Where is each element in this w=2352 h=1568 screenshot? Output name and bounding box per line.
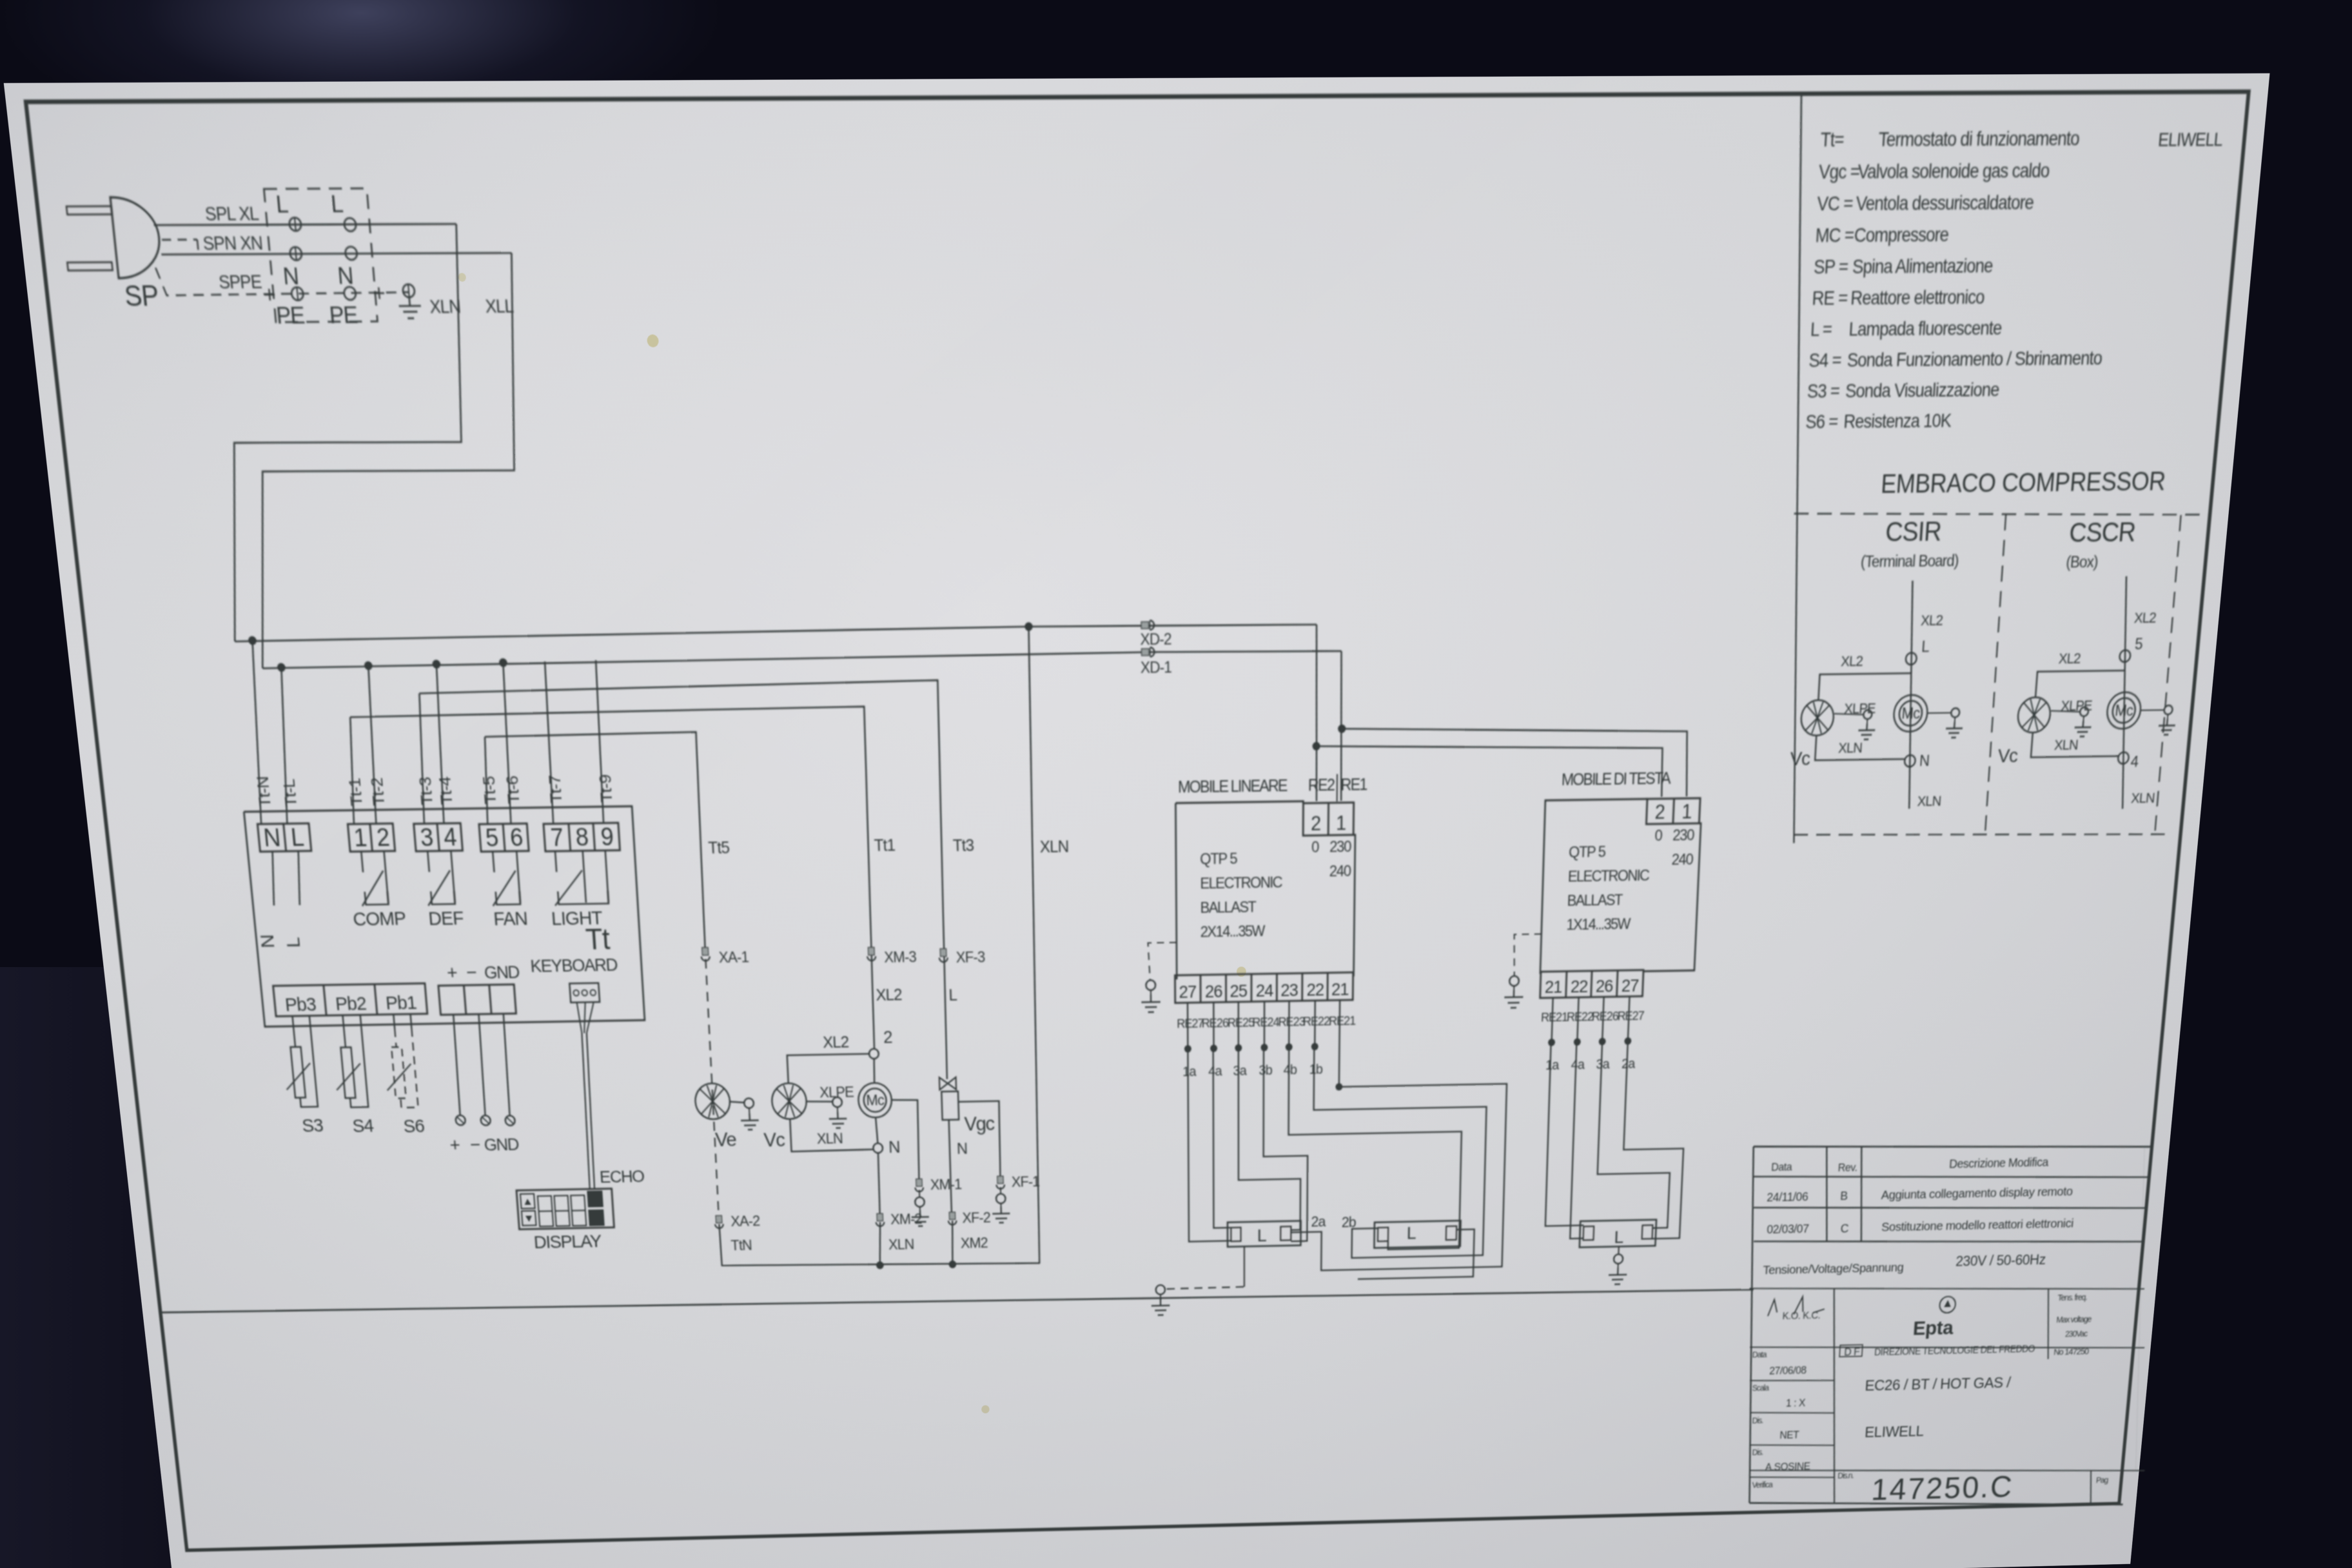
labels 1a 4a 3a 3b 4b 1b — [1182, 1062, 1322, 1079]
bus L (to XD-1) — [262, 650, 1341, 669]
svg-text:S4: S4 — [351, 1115, 374, 1136]
svg-text:XL2: XL2 — [1841, 653, 1863, 669]
svg-text:XLN: XLN — [888, 1236, 914, 1253]
QTP2 terminal row 21 22 26 27 — [1540, 970, 1643, 998]
svg-text:3b: 3b — [1259, 1063, 1272, 1079]
svg-text:RE26: RE26 — [1202, 1016, 1229, 1030]
wire Tt-9 riser — [593, 660, 606, 823]
label XD-2 — [1140, 630, 1171, 649]
svg-text:BALLAST: BALLAST — [1567, 891, 1623, 909]
svg-text:22: 22 — [1570, 977, 1587, 997]
QTP1 PE dashed bracket — [1148, 943, 1177, 980]
connector XD-1 — [1142, 649, 1150, 656]
wire bus L to QTP1 terminal 1 — [1340, 651, 1342, 801]
svg-text:25: 25 — [1230, 981, 1247, 1001]
svg-text:0: 0 — [1654, 827, 1663, 844]
svg-text:21: 21 — [1544, 977, 1562, 997]
wire XLL jog — [224, 253, 540, 668]
svg-text:XM-1: XM-1 — [930, 1176, 961, 1193]
svg-text:Ve: Ve — [714, 1128, 736, 1151]
wire SPPE (PE, dashed) — [155, 266, 409, 296]
svg-text:4a: 4a — [1571, 1057, 1585, 1072]
sensor S3 wires — [293, 1016, 296, 1047]
connector XD-2 — [1141, 622, 1149, 629]
compressor circuit CSCR — [2107, 576, 2143, 808]
terminal box (dashed) — [264, 188, 377, 322]
wire Tt-6 riser — [500, 663, 515, 824]
svg-text:Spina Alimentazione: Spina Alimentazione — [1852, 256, 1994, 278]
labels RE21 RE22 RE26 RE27 (2) — [1541, 1008, 1645, 1024]
wire RE23 to lamp L2 left bottom — [1288, 1044, 1464, 1251]
svg-text:Sonda Visualizzazione: Sonda Visualizzazione — [1845, 380, 2000, 402]
ballast QTP1 box — [1175, 801, 1303, 805]
svg-text:Vc: Vc — [763, 1128, 785, 1151]
svg-text:Dis.: Dis. — [1752, 1416, 1763, 1426]
svg-text:2: 2 — [1311, 813, 1320, 835]
wire RE24 to lamp L1 right bottom — [1263, 1046, 1308, 1242]
QTP1 PE terminal ground — [1146, 980, 1155, 990]
svg-text:XL2: XL2 — [2058, 651, 2081, 667]
svg-text:Scala: Scala — [1752, 1384, 1769, 1393]
connector XF-3 — [940, 948, 946, 956]
svg-text:2a: 2a — [1622, 1056, 1636, 1071]
Ve PE terminal — [730, 1101, 745, 1102]
connector XF-1 — [997, 1176, 1003, 1183]
svg-text:L: L — [329, 190, 344, 218]
wire SPN XN (N) — [161, 252, 511, 255]
svg-text:2: 2 — [883, 1027, 892, 1047]
svg-text:XLN: XLN — [429, 297, 461, 318]
svg-text:L: L — [1614, 1228, 1623, 1248]
svg-text:XF-3: XF-3 — [955, 948, 985, 966]
QTP1 output wires RE27..RE21 with junction dots — [1184, 1000, 1340, 1052]
embraco dashed right edge — [2153, 515, 2184, 835]
revision table row line 3 — [1753, 1233, 2144, 1249]
svg-text:Epta: Epta — [1912, 1317, 1955, 1340]
svg-text:XM-2: XM-2 — [890, 1211, 922, 1228]
svg-text:1X14...35W: 1X14...35W — [1566, 915, 1631, 933]
wire XF-2 to bottom bus — [951, 1220, 954, 1264]
text DIF direzione — [1839, 1345, 1863, 1357]
svg-text:DEF: DEF — [427, 908, 464, 930]
svg-text:RE21: RE21 — [1329, 1014, 1356, 1028]
node N circle — [873, 1143, 883, 1153]
svg-text:−: − — [465, 962, 477, 983]
PE cross marks — [264, 294, 275, 296]
label XLN — [429, 297, 461, 318]
junction dots bottom bus — [876, 1261, 884, 1269]
svg-text:Pb3: Pb3 — [284, 994, 317, 1015]
svg-text:DISPLAY: DISPLAY — [533, 1231, 602, 1253]
connector XM-3 — [868, 947, 875, 955]
svg-text:23: 23 — [1280, 980, 1298, 1000]
wire QTP2-27 to lamp L3 right bottom — [1620, 1040, 1689, 1239]
svg-text:Tt-1: Tt-1 — [346, 778, 366, 807]
fluorescent lamp L3 — [1580, 1220, 1656, 1248]
svg-text:L: L — [1921, 638, 1930, 656]
svg-text:XA-1: XA-1 — [718, 948, 749, 966]
svg-text:1: 1 — [1336, 812, 1346, 834]
svg-text:L: L — [948, 986, 957, 1004]
connector XM-1 — [916, 1179, 922, 1186]
svg-text:XF-2: XF-2 — [962, 1210, 990, 1226]
svg-text:SPN XN: SPN XN — [202, 233, 263, 254]
lamp L2 right stub — [1358, 1230, 1475, 1279]
svg-text:XLN: XLN — [1917, 794, 1941, 810]
svg-text:RE25: RE25 — [1228, 1015, 1255, 1030]
svg-text:RE22: RE22 — [1303, 1014, 1330, 1028]
svg-text:02/03/07: 02/03/07 — [1767, 1222, 1809, 1236]
svg-text:Ventola dessuriscaldatore: Ventola dessuriscaldatore — [1856, 192, 2035, 215]
svg-text:Mc: Mc — [866, 1092, 885, 1108]
svg-text:4a: 4a — [1208, 1064, 1222, 1079]
wire to QTP2 terminal 2 — [1316, 741, 1664, 801]
svg-text:QTP 5: QTP 5 — [1569, 843, 1606, 861]
svg-text:9: 9 — [600, 823, 614, 850]
QTP2 terminals 2 1 — [1646, 798, 1700, 824]
svg-text:EC26 / BT / HOT GAS /: EC26 / BT / HOT GAS / — [1865, 1375, 2012, 1395]
svg-text:Resistenza 10K: Resistenza 10K — [1843, 411, 1952, 432]
connector XF-2 — [949, 1212, 955, 1219]
wire Tt-2 riser — [363, 665, 382, 823]
Epta logo — [1939, 1297, 1956, 1313]
svg-text:SP =: SP = — [1813, 257, 1848, 278]
svg-text:7: 7 — [549, 823, 563, 851]
QTP1 terminals 2 1 — [1303, 803, 1354, 836]
svg-text:1 : X: 1 : X — [1786, 1398, 1806, 1409]
svg-text:Tt-N: Tt-N — [254, 777, 275, 808]
revision table top edge — [1753, 1139, 2153, 1155]
svg-text:QTP 5: QTP 5 — [1200, 850, 1237, 868]
wire RE27 to lamp L1 left bottom — [1188, 1048, 1230, 1242]
svg-text:Vc: Vc — [1790, 748, 1811, 770]
QTP2 PE dashed bracket — [1513, 934, 1542, 976]
connector XA-2 — [716, 1215, 722, 1222]
terminal block 5 6 — [479, 823, 529, 852]
svg-text:RE =: RE = — [1812, 288, 1848, 309]
svg-text:ELIWELL: ELIWELL — [2157, 130, 2224, 151]
svg-text:0: 0 — [1311, 838, 1319, 856]
svg-text:RE21: RE21 — [1541, 1010, 1568, 1024]
label XLL — [485, 296, 514, 317]
terminal block N L — [257, 823, 311, 852]
dashed PE link lamp L1 — [1167, 1287, 1244, 1289]
svg-text:No 147250: No 147250 — [2053, 1346, 2090, 1357]
svg-text:XF-1: XF-1 — [1012, 1173, 1040, 1190]
wire XM-2 to bottom bus — [878, 1222, 881, 1265]
svg-text:ELECTRONIC: ELECTRONIC — [1200, 874, 1282, 892]
sensor S4 (Pb2) — [340, 1047, 355, 1098]
svg-text:(Terminal Board): (Terminal Board) — [1860, 551, 1959, 571]
junction Tt-N on bus — [248, 636, 257, 645]
svg-text:CSIR: CSIR — [1885, 517, 1942, 547]
svg-text:NET: NET — [1779, 1429, 1799, 1441]
junction dots on bus L — [277, 663, 286, 672]
remote display ECHO — [516, 1189, 614, 1230]
svg-text:RE22: RE22 — [1567, 1010, 1594, 1024]
wire XLN vertical — [1026, 627, 1042, 1263]
wire Vc bottom XLN to N — [790, 1117, 873, 1151]
svg-text:N: N — [337, 262, 354, 290]
title main column dividers — [1821, 1288, 1848, 1504]
label SPPE — [218, 272, 263, 293]
svg-text:XL2: XL2 — [2133, 610, 2157, 626]
svg-text:S3: S3 — [301, 1115, 324, 1136]
revision column dividers — [1821, 1146, 1833, 1242]
terminals PE PE — [291, 287, 304, 300]
svg-text:Mc: Mc — [1901, 704, 1921, 722]
svg-text:GND: GND — [484, 962, 520, 983]
controller box Tt — [244, 807, 645, 1027]
svg-text:6: 6 — [509, 823, 524, 851]
terminal wire labels Tt-N .. Tt-9 — [254, 772, 616, 807]
svg-text:L =: L = — [1810, 319, 1832, 340]
wire XLN jog — [195, 224, 487, 642]
svg-text:XLL: XLL — [485, 296, 514, 317]
wire Vgc to XF-2 — [949, 1120, 952, 1216]
svg-text:MOBILE LINEARE: MOBILE LINEARE — [1178, 776, 1288, 796]
svg-text:(Box): (Box) — [2066, 553, 2099, 571]
svg-text:XLN: XLN — [2053, 738, 2078, 754]
svg-text:EMBRACO COMPRESSOR: EMBRACO COMPRESSOR — [1880, 467, 2166, 498]
svg-text:RE2: RE2 — [1308, 776, 1335, 794]
svg-text:Tt1: Tt1 — [874, 836, 895, 855]
svg-text:XLN: XLN — [1040, 838, 1069, 856]
wire Tt-L riser — [273, 667, 296, 823]
label SPL XL — [204, 204, 260, 225]
svg-text:Lampada fluorescente: Lampada fluorescente — [1848, 318, 2003, 340]
svg-text:RE24: RE24 — [1252, 1015, 1279, 1029]
svg-text:Vgc =: Vgc = — [1818, 161, 1860, 183]
svg-text:−: − — [469, 1135, 481, 1155]
junction XLN vertical — [1024, 622, 1033, 631]
wire Tt-5 riser — [481, 737, 491, 824]
junction wire21 turn — [1335, 1083, 1342, 1091]
svg-text:ELIWELL: ELIWELL — [1864, 1423, 1924, 1440]
svg-text:N: N — [1919, 752, 1930, 769]
svg-text:3: 3 — [419, 823, 434, 851]
svg-text:XL2: XL2 — [823, 1034, 849, 1052]
sensor S6 wires (dashed) — [393, 1015, 395, 1029]
legend divider vertical — [1763, 95, 1834, 843]
svg-text:XL2: XL2 — [876, 986, 902, 1004]
svg-text:MC =: MC = — [1815, 225, 1855, 246]
svg-text:MOBILE DI TESTA: MOBILE DI TESTA — [1561, 769, 1671, 789]
fluorescent lamp L1 — [1228, 1221, 1301, 1247]
svg-text:24/11/06: 24/11/06 — [1767, 1190, 1808, 1204]
svg-text:XM-3: XM-3 — [884, 948, 917, 966]
svg-text:A.SOSINE: A.SOSINE — [1765, 1461, 1810, 1473]
wire RE25 to lamp L1 right top — [1239, 1047, 1301, 1231]
svg-text:2X14...35W: 2X14...35W — [1200, 922, 1266, 940]
svg-text:XL2: XL2 — [1920, 612, 1943, 629]
signature scribbles — [1768, 1296, 1825, 1316]
wire XL2 Vc to node 2 — [787, 1054, 870, 1084]
svg-text:3a: 3a — [1233, 1063, 1247, 1079]
relay contact FAN — [493, 852, 494, 872]
svg-text:D F: D F — [1844, 1346, 1860, 1358]
bus Tt-1 to Tt1 — [350, 707, 877, 1058]
svg-text:Sonda Funzionamento / Sbriname: Sonda Funzionamento / Sbrinamento — [1847, 348, 2103, 371]
svg-text:240: 240 — [1671, 850, 1693, 868]
plug SP — [110, 197, 163, 279]
svg-text:230V / 50-60Hz: 230V / 50-60Hz — [1955, 1251, 2046, 1269]
lamp L3 PE stub and ground — [1618, 1246, 1620, 1255]
motor Mc compressor — [857, 1083, 892, 1118]
bus N (to XD-2) — [234, 623, 1317, 642]
svg-text:Pb2: Pb2 — [335, 994, 367, 1015]
svg-text:S6: S6 — [402, 1116, 425, 1137]
svg-text:1a: 1a — [1545, 1058, 1560, 1073]
wire Tt-3 riser — [414, 693, 430, 823]
svg-text:RE27: RE27 — [1177, 1016, 1204, 1030]
wire Mc right to XM-1 — [892, 1099, 921, 1183]
XM-1 pigtail ground — [919, 1190, 921, 1198]
wire N to XM-2 — [877, 1153, 881, 1217]
svg-text:Tt3: Tt3 — [952, 836, 974, 855]
svg-text:Tt5: Tt5 — [708, 839, 730, 857]
wire Tt-1 riser — [345, 717, 360, 824]
svg-text:C: C — [1840, 1222, 1849, 1235]
relay contact COMP — [361, 852, 363, 872]
svg-text:VC =: VC = — [1816, 193, 1853, 215]
svg-text:XLN: XLN — [1838, 740, 1863, 756]
junction to head unit wire 1 — [1338, 725, 1346, 733]
svg-text:LIGHT: LIGHT — [551, 908, 603, 930]
sensor S4 wires — [343, 1016, 346, 1048]
svg-text:XM2: XM2 — [961, 1235, 988, 1251]
svg-text:KEYBOARD: KEYBOARD — [529, 955, 618, 976]
svg-text:Valvola solenoide gas caldo: Valvola solenoide gas caldo — [1857, 161, 2050, 183]
svg-text:230Vac: 230Vac — [2065, 1329, 2088, 1338]
label SP — [123, 280, 160, 313]
svg-text:2: 2 — [375, 823, 390, 851]
wires + - GND pigtails — [452, 1015, 461, 1115]
terminals N N — [289, 247, 302, 260]
wire SPL XL (L) — [154, 223, 456, 226]
svg-text:2: 2 — [1654, 801, 1665, 823]
svg-text:TtN: TtN — [730, 1237, 752, 1254]
svg-text:XA-2: XA-2 — [730, 1213, 760, 1230]
svg-text:CSCR: CSCR — [2068, 518, 2137, 548]
wire Mc bottom to N node — [876, 1117, 877, 1143]
revision table row line 2 — [1753, 1200, 2147, 1216]
svg-text:Rev.: Rev. — [1837, 1162, 1857, 1174]
wire QTP2-26 to lamp L3 right top — [1596, 1040, 1676, 1229]
bus Tt-3 to Tt3 — [419, 680, 950, 1088]
QTP1 terminal row 27..21 — [1175, 972, 1353, 1003]
svg-text:RE26: RE26 — [1591, 1009, 1618, 1023]
connector XM-2 — [877, 1213, 883, 1220]
svg-text:XLN: XLN — [816, 1130, 843, 1147]
svg-text:RE27: RE27 — [1617, 1008, 1644, 1023]
separator rule above bottom margin — [161, 1279, 1754, 1324]
title block bottom edge — [1749, 1494, 2124, 1513]
svg-text:SPPE: SPPE — [218, 272, 263, 293]
svg-text:XLPE: XLPE — [819, 1084, 854, 1101]
svg-text:FAN: FAN — [493, 908, 528, 930]
connector XA-1 — [702, 948, 709, 955]
lamp L1 starter stub to PE — [1244, 1246, 1245, 1287]
PE earth terminal and ground — [402, 284, 415, 297]
svg-text:26: 26 — [1205, 981, 1222, 1001]
svg-text:ELECTRONIC: ELECTRONIC — [1567, 867, 1650, 885]
wire bus N to QTP1 terminal 2 — [1315, 625, 1318, 801]
svg-text:24: 24 — [1256, 981, 1273, 1001]
svg-text:Tt-9: Tt-9 — [596, 775, 616, 803]
svg-text:22: 22 — [1306, 979, 1324, 999]
svg-text:N: N — [957, 1140, 968, 1157]
svg-text:27/06/08: 27/06/08 — [1769, 1365, 1807, 1377]
title block left edge — [1735, 1146, 1769, 1504]
svg-text:PE: PE — [275, 302, 306, 329]
svg-text:240: 240 — [1329, 862, 1351, 879]
lamp Vc — [771, 1083, 807, 1120]
svg-text:N: N — [282, 262, 299, 290]
wire QTP2-22 to lamp L3 left bottom — [1570, 1042, 1590, 1239]
svg-text:Descrizione Modifica: Descrizione Modifica — [1949, 1155, 2050, 1171]
wires N L stubs — [269, 852, 278, 906]
QTP2 output wires with junction dots — [1548, 996, 1633, 1046]
svg-text:Compressore: Compressore — [1854, 224, 1949, 246]
fluorescent lamp L2 — [1374, 1220, 1460, 1248]
terminal block 3 4 — [414, 823, 463, 852]
svg-text:N: N — [262, 824, 281, 852]
compressor circuit CSIR — [1898, 580, 1924, 808]
svg-text:Tt-7: Tt-7 — [546, 776, 565, 804]
svg-text:S3 =: S3 = — [1807, 381, 1840, 402]
QTP2 PE terminal ground — [1509, 976, 1519, 986]
svg-text:4b: 4b — [1284, 1063, 1297, 1078]
svg-text:Tens. freq.: Tens. freq. — [2057, 1293, 2087, 1303]
svg-text:ECHO: ECHO — [599, 1166, 645, 1186]
terminal block 1 2 — [348, 823, 395, 852]
keyboard connector — [569, 983, 600, 1003]
svg-text:Mc: Mc — [2114, 701, 2133, 720]
svg-text:Reattore elettronico: Reattore elettronico — [1850, 287, 1985, 309]
svg-text:L: L — [1257, 1226, 1267, 1246]
svg-text:B: B — [1840, 1189, 1848, 1202]
wire node2 to Mc — [874, 1059, 875, 1083]
revision table row line 1 — [1753, 1169, 2150, 1185]
label XD-1 — [1141, 658, 1171, 677]
svg-text:230: 230 — [1329, 838, 1351, 855]
svg-text:N: N — [257, 934, 279, 948]
svg-text:SP: SP — [123, 280, 160, 313]
svg-text:S4 =: S4 = — [1808, 350, 1842, 371]
wire QTP2-21 to lamp L3 left top — [1545, 1042, 1590, 1226]
svg-text:26: 26 — [1595, 976, 1613, 996]
svg-text:XLN: XLN — [2130, 790, 2155, 807]
svg-text:Tt-3: Tt-3 — [416, 777, 436, 805]
svg-text:Tt-6: Tt-6 — [504, 776, 524, 805]
svg-text:Vgc: Vgc — [964, 1112, 995, 1135]
svg-text:+: + — [449, 1135, 460, 1156]
svg-text:BALLAST: BALLAST — [1200, 898, 1256, 916]
svg-text:Vc: Vc — [1997, 745, 2019, 767]
relay contact LIGHT — [555, 851, 556, 872]
terminals L L — [289, 217, 302, 231]
wire XA-2 to bottom bus — [719, 1218, 1040, 1270]
sensor S6 resistor 10K (dashed) — [391, 1047, 406, 1099]
junction to head unit wire 2 — [1313, 742, 1320, 750]
svg-text:2a: 2a — [1311, 1213, 1326, 1230]
svg-text:Max voltage: Max voltage — [2056, 1315, 2092, 1325]
svg-text:Tt-4: Tt-4 — [436, 776, 456, 805]
svg-text:RE23: RE23 — [1278, 1014, 1305, 1028]
labels 1a 4a 3a 2a (2) — [1545, 1056, 1636, 1073]
svg-text:PE: PE — [328, 302, 358, 329]
